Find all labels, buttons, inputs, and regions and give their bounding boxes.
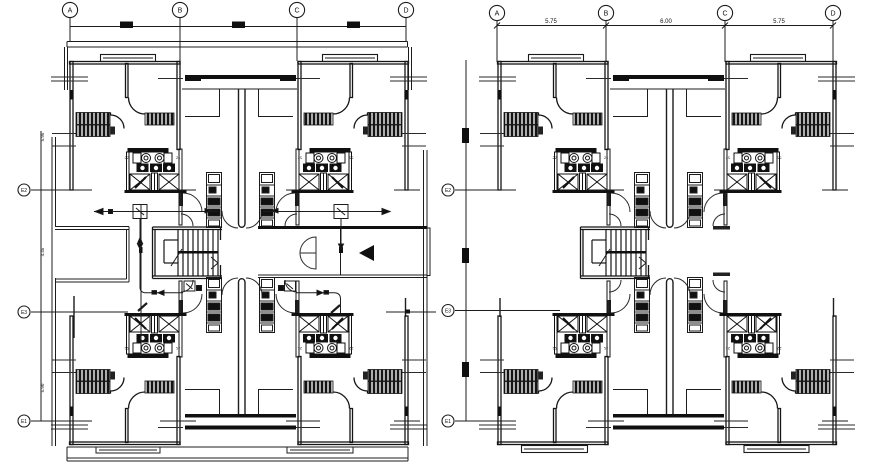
svg-text:B: B bbox=[178, 8, 183, 15]
svg-text:E2: E2 bbox=[445, 188, 451, 194]
svg-text:A: A bbox=[495, 11, 500, 18]
svg-text:5.75: 5.75 bbox=[545, 19, 557, 25]
svg-text:C: C bbox=[722, 11, 727, 18]
svg-text:D: D bbox=[403, 8, 408, 15]
svg-text:E3: E3 bbox=[445, 309, 451, 315]
svg-text:E3: E3 bbox=[21, 310, 27, 316]
svg-text:E1: E1 bbox=[21, 419, 27, 425]
svg-text:E2: E2 bbox=[21, 188, 27, 194]
svg-text:E1: E1 bbox=[445, 419, 451, 425]
svg-text:4.45: 4.45 bbox=[40, 247, 45, 256]
svg-text:5.95: 5.95 bbox=[40, 132, 45, 141]
svg-text:B: B bbox=[604, 11, 609, 18]
svg-text:C: C bbox=[294, 8, 299, 15]
svg-text:5.90: 5.90 bbox=[40, 383, 45, 392]
svg-text:D: D bbox=[830, 11, 835, 18]
svg-text:A: A bbox=[68, 8, 73, 15]
svg-text:5.75: 5.75 bbox=[773, 19, 785, 25]
svg-text:6.00: 6.00 bbox=[660, 19, 672, 25]
